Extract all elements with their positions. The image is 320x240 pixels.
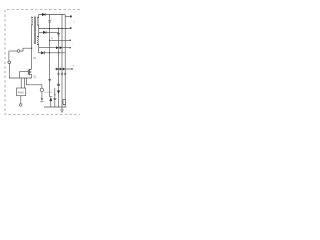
diode D3 cathode bar bbox=[43, 51, 45, 54]
terminal square rail6 bbox=[71, 68, 72, 69]
bus line v3 bbox=[64, 15, 66, 108]
terminal circle J4 under box bbox=[19, 104, 22, 107]
diode D1 cathode bar bbox=[44, 13, 46, 16]
rail 3b output wire bbox=[50, 39, 70, 41]
bus line v1 bbox=[58, 29, 60, 108]
bar under arrow bbox=[40, 101, 43, 103]
wire: box left lead bbox=[20, 78, 22, 88]
wire from J1 to drain node bbox=[20, 48, 32, 51]
capacitor C8 plates on v1 upper bbox=[57, 34, 60, 35]
wire: primary bottom / drain line bbox=[32, 25, 33, 70]
transistor Q1 arrow bbox=[30, 71, 31, 73]
diode D6a on rail 6 bbox=[56, 68, 58, 71]
resistor R1 box on v3 bbox=[63, 100, 66, 105]
ground symbol bbox=[60, 110, 63, 112]
wire: secondary2 bottom lead bbox=[37, 45, 39, 48]
vertical wire xB bbox=[54, 88, 56, 107]
bus line v2 bbox=[61, 15, 63, 108]
gate rail wire bbox=[20, 72, 29, 78]
input terminal circle J1 bbox=[17, 50, 20, 53]
wire: secondary1 top lead bbox=[37, 15, 39, 18]
wire: sense branch to circle J3 bbox=[26, 78, 42, 88]
capacitor C1 plates on x=49.6 bus bbox=[48, 21, 51, 22]
controller box U1 bbox=[17, 88, 26, 96]
transformer T1 core bbox=[34, 17, 35, 45]
capacitor C4 plates on v2 bbox=[61, 73, 63, 74]
capacitor C5 plates on v3 bbox=[64, 73, 66, 74]
wire below diode D8 bbox=[50, 101, 52, 107]
wire: secondary1 bottom to secondary2 top bbox=[37, 25, 39, 37]
svg-text:PWM: PWM bbox=[18, 91, 24, 94]
svg-text:C: C bbox=[51, 37, 53, 40]
transformer T1 secondary winding 2 bbox=[37, 37, 38, 45]
diode D5 on rail 4 bbox=[60, 46, 62, 49]
bus line at x=49.6 bbox=[49, 15, 51, 97]
terminal square rail4 bbox=[69, 47, 70, 48]
capacitor C7 plates on xB bbox=[53, 98, 56, 99]
diode D3 on rail 5 bbox=[41, 51, 44, 54]
terminal square rail2 bbox=[70, 27, 72, 29]
diode D8 up on bus bbox=[49, 97, 52, 101]
sense terminal circle J3 bbox=[40, 88, 43, 91]
diode D2 on rail 3 bbox=[43, 31, 46, 34]
junction dot xB bbox=[54, 94, 55, 95]
diode D6b on rail 6 bbox=[60, 68, 62, 71]
junction dot rail2/v2 bbox=[61, 28, 62, 29]
wire: J3 down bbox=[41, 92, 43, 99]
transistor Q1 source lead bbox=[30, 75, 32, 78]
rail 3 output wire bbox=[39, 31, 59, 33]
capacitor C6 plates on v1 low bbox=[57, 84, 60, 85]
capacitor C3 plates on v1 bbox=[57, 73, 59, 74]
capacitor C2 plates on x=49.6 bus low bbox=[48, 79, 51, 80]
input terminal circle J2 bbox=[8, 61, 11, 64]
input terminal wire upper bbox=[9, 50, 17, 52]
rail 6 common wire bbox=[55, 68, 71, 70]
svg-text:*: * bbox=[75, 12, 76, 14]
wire: box right lead bbox=[23, 78, 25, 88]
junction dot rail2/bus bbox=[49, 28, 50, 29]
wire: box bottom lead bbox=[20, 96, 22, 104]
transformer T1 primary winding bbox=[32, 18, 33, 25]
rail 5 output wire bbox=[39, 48, 65, 53]
enclosure dashed border bbox=[5, 10, 80, 115]
diode D1 on rail 1 bbox=[42, 13, 45, 16]
wire: input drop to lower circle bbox=[8, 51, 10, 61]
dashed feedback line bbox=[44, 91, 53, 93]
diode D4 on rail 4 bbox=[56, 46, 58, 49]
rail 4 output wire bbox=[39, 47, 70, 49]
wire from J2 down and right (source rail) bbox=[9, 64, 31, 78]
terminal square rail3b bbox=[69, 40, 70, 41]
junction dot rail3b/bus bbox=[49, 40, 50, 41]
terminal square rail1 bbox=[70, 16, 72, 18]
junction dot rail2/v1 bbox=[58, 28, 59, 29]
rail 2 output wire bbox=[39, 28, 70, 30]
transistor Q1 drain lead bbox=[30, 68, 32, 70]
ground stub bbox=[61, 107, 63, 110]
rail 1 terminal stub bbox=[65, 15, 70, 17]
bottom common rail bbox=[44, 106, 66, 108]
diode D2 cathode bar bbox=[45, 31, 47, 34]
diode D7 down on v1 bbox=[57, 91, 60, 94]
junction dot drain node bbox=[31, 48, 32, 49]
transistor Q1 channel bar bbox=[29, 69, 31, 75]
wire: primary top stub bbox=[32, 17, 33, 18]
diode D8 cathode bar bbox=[49, 96, 52, 98]
probe arrow down bbox=[41, 99, 43, 101]
junction dot rail5/v1 bbox=[58, 52, 59, 53]
transformer T1 secondary winding 1 bbox=[37, 17, 38, 25]
junction dot rail5/bus bbox=[49, 52, 50, 53]
rail 1 output wire bbox=[39, 14, 65, 16]
diode D6c on rail 6 bbox=[63, 68, 65, 71]
transistor Q1 gate bar bbox=[27, 69, 29, 74]
